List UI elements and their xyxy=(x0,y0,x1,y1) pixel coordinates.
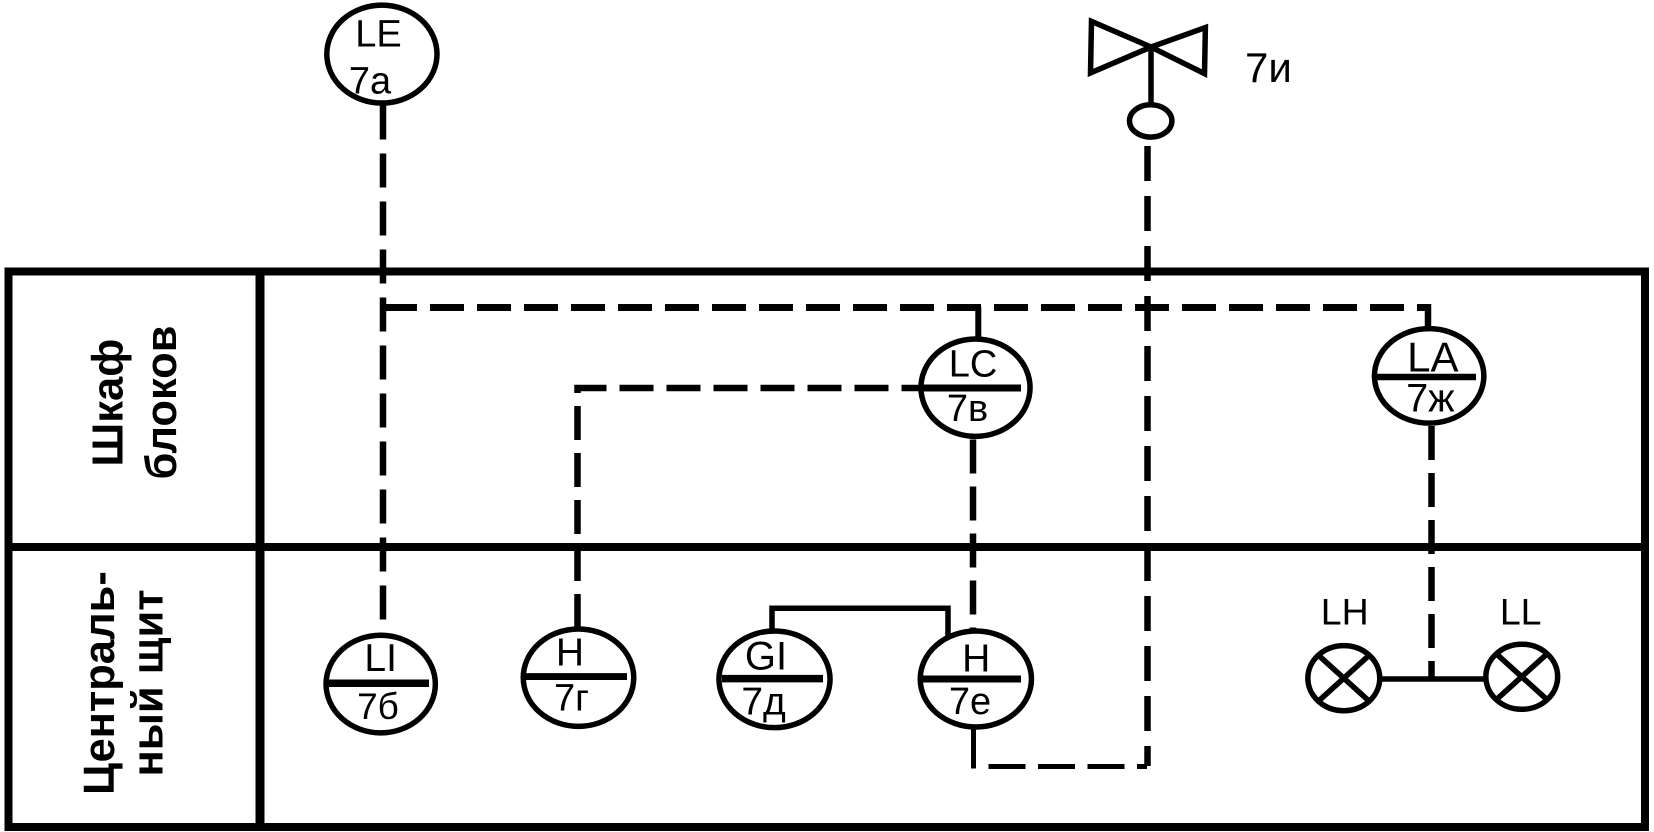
valve 7i: stem xyxy=(1148,47,1154,105)
svg-text:LA: LA xyxy=(1407,334,1458,381)
svg-text:H: H xyxy=(556,632,584,675)
valve 7i: actuator circle xyxy=(1130,105,1172,137)
wire: solid connector GI 7d to H 7e xyxy=(772,608,948,637)
wire: solid link between lamps LH and LL xyxy=(1378,676,1488,682)
svg-text:7е: 7е xyxy=(949,681,991,723)
instrument LC 7v xyxy=(921,339,1030,436)
svg-text:7д: 7д xyxy=(741,681,786,724)
frame: outer border of panels table xyxy=(9,272,1646,828)
wire: dashed horizontal bus in cabinet row xyxy=(383,304,1426,311)
frame: row divider between cabinet and central panel xyxy=(5,543,1650,551)
svg-text:7г: 7г xyxy=(554,678,589,720)
instrument LA 7zh xyxy=(1374,329,1483,424)
svg-text:H: H xyxy=(962,638,990,681)
label: Шкаф блоков (rotated) xyxy=(85,326,187,480)
svg-text:7и: 7и xyxy=(1245,44,1292,91)
svg-text:ный щит: ный щит xyxy=(125,590,173,777)
lamp LH xyxy=(1308,646,1380,711)
label: Централь-ный щит (rotated) xyxy=(76,571,173,795)
svg-text:LL: LL xyxy=(1500,591,1542,633)
svg-text:7а: 7а xyxy=(349,61,392,103)
wire: dashed line from LA 7zh down to lamp link xyxy=(1428,426,1435,679)
wire: dashed line from LC 7v down to H 7e xyxy=(970,440,977,630)
frame: label column divider xyxy=(256,268,265,828)
wire: solid stub from bus down to LC 7v xyxy=(975,307,981,339)
svg-text:7в: 7в xyxy=(947,388,988,430)
instrument H 7g xyxy=(523,629,634,726)
svg-text:7ж: 7ж xyxy=(1406,377,1455,421)
wire: corner stub from bus down to LA 7zh xyxy=(1425,304,1432,329)
svg-text:LC: LC xyxy=(949,344,998,386)
svg-text:Шкаф: Шкаф xyxy=(85,339,133,467)
svg-text:Централь-: Централь- xyxy=(76,571,124,795)
wire: solid stub below H 7e xyxy=(971,728,976,769)
wire: dashed line from LE 7a down to LI 7b xyxy=(380,106,387,634)
svg-text:7б: 7б xyxy=(357,686,399,727)
wire: dashed line from H 7g up and right to LC 7v xyxy=(578,388,920,628)
wire: dashed vertical line from valve 7i down to lower corner xyxy=(1144,146,1151,766)
svg-text:GI: GI xyxy=(745,635,787,679)
instrument LI 7b xyxy=(326,635,435,733)
svg-text:LH: LH xyxy=(1321,591,1369,633)
valve 7i: bowtie body xyxy=(1091,21,1206,75)
instrument GI 7d xyxy=(719,631,830,728)
wire: dashed horizontal from valve line corner to H 7e stub xyxy=(989,764,1148,769)
instrument H 7e xyxy=(920,631,1031,727)
svg-text:блоков: блоков xyxy=(138,326,186,480)
svg-text:LI: LI xyxy=(364,637,397,680)
instrument LE 7a xyxy=(327,5,437,103)
lamp LL xyxy=(1486,644,1558,709)
svg-text:LE: LE xyxy=(355,13,401,55)
